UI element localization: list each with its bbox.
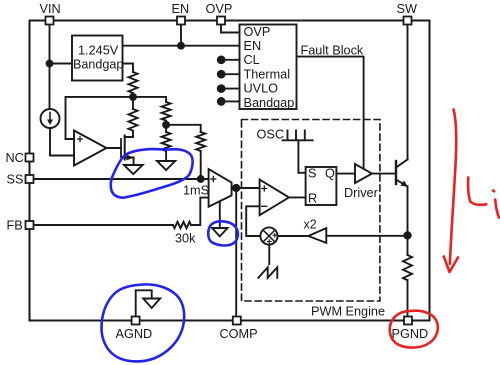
blue annotation loop around ground G3 xyxy=(208,221,238,245)
svg-text:R: R xyxy=(308,192,317,206)
wire EN net xyxy=(123,45,240,47)
node sense tap xyxy=(404,232,410,238)
multiplier X1 xyxy=(260,227,277,244)
current source I1 xyxy=(41,109,60,128)
resistor R2 xyxy=(129,109,138,131)
pin COMP xyxy=(233,317,241,325)
svg-text:1.245V: 1.245V xyxy=(78,44,119,58)
ground G3 xyxy=(212,228,228,236)
AGND ground symbol xyxy=(136,290,152,316)
bandgap block xyxy=(72,36,123,81)
resistor R7 30k xyxy=(34,224,174,226)
wire sawtooth stem xyxy=(268,245,270,264)
node VIN-bandgap junction xyxy=(47,61,53,67)
node J2 xyxy=(163,122,169,128)
svg-text:EN: EN xyxy=(172,2,190,16)
ground G2 xyxy=(157,161,175,170)
ground G1 xyxy=(124,165,143,174)
svg-text:EN: EN xyxy=(244,39,262,53)
node Bandgap stub xyxy=(218,98,225,105)
svg-text:PGND: PGND xyxy=(392,327,429,341)
blue annotation loop around AGND xyxy=(102,284,185,361)
node CL stub xyxy=(218,56,225,63)
sawtooth ramp symbol xyxy=(258,267,277,278)
svg-text:Driver: Driver xyxy=(344,186,379,200)
pin PGND xyxy=(404,317,412,325)
wire J2 down xyxy=(165,125,167,132)
pin SS xyxy=(26,175,34,183)
svg-text:30k: 30k xyxy=(175,232,196,246)
svg-text:OSC: OSC xyxy=(257,128,285,142)
pin OVP xyxy=(217,17,225,25)
wire multiplier to x2 xyxy=(278,235,309,237)
wire feedback to op-amp plus input xyxy=(66,97,134,139)
wire x2 to sense node xyxy=(326,235,407,237)
svg-text:Bandgap: Bandgap xyxy=(244,96,295,110)
comparator U4 xyxy=(260,180,289,216)
svg-text:FB: FB xyxy=(7,219,23,233)
wire current source to op-amp minus input xyxy=(50,128,74,156)
node EN junction xyxy=(178,43,184,49)
pin VIN xyxy=(46,17,54,25)
svg-text:COMP: COMP xyxy=(220,327,258,341)
pin NC xyxy=(26,154,34,162)
svg-text:AGND: AGND xyxy=(116,327,153,341)
wire emitter down xyxy=(407,187,409,256)
wire comparator output to R input xyxy=(289,196,306,198)
wire OVP elbow xyxy=(221,25,240,33)
svg-text:Thermal: Thermal xyxy=(244,67,291,81)
resistor R5 xyxy=(162,132,171,151)
wire SS line xyxy=(34,178,209,180)
red Li annotation xyxy=(468,178,486,205)
svg-text:Q: Q xyxy=(325,167,335,181)
wire R4 to SS node xyxy=(200,151,202,179)
PWM engine dashed box xyxy=(242,120,380,302)
resistor R3 xyxy=(162,102,171,121)
wire R6 to PGND xyxy=(407,280,409,317)
wire J1 to chain2 xyxy=(133,97,166,102)
svg-text:CL: CL xyxy=(244,53,260,67)
wire SW drop to collector xyxy=(407,25,409,160)
pin EN xyxy=(177,17,185,25)
red circle around PGND pin xyxy=(390,311,438,348)
wire EN pin drop xyxy=(180,25,182,46)
wire OSC to S input xyxy=(298,140,305,173)
transistor M1 NMOS xyxy=(120,139,122,157)
node U2 output xyxy=(233,185,239,191)
SR latch U5 xyxy=(306,167,337,205)
wire fault output to driver xyxy=(297,57,364,169)
svg-text:1mS: 1mS xyxy=(183,184,209,198)
svg-text:NC: NC xyxy=(6,151,24,165)
node J3 on SS line xyxy=(198,176,204,182)
IC boundary xyxy=(30,21,430,321)
svg-text:PWM Engine: PWM Engine xyxy=(311,305,385,319)
blue annotation loop around grounds G1 G2 xyxy=(111,149,193,198)
wire source down xyxy=(133,158,135,166)
wire R5 to ground xyxy=(165,151,167,161)
op-amp U1 xyxy=(74,131,107,166)
wire U2 output to comparator xyxy=(232,187,260,189)
svg-text:S: S xyxy=(308,167,316,181)
node J1 ref node xyxy=(130,94,136,100)
resistor R4 xyxy=(196,132,205,151)
pin SW xyxy=(404,17,412,25)
pin FB xyxy=(26,221,34,229)
red arrow annotation xyxy=(450,110,456,265)
wire COMP drop xyxy=(235,188,237,317)
OSC clock symbol xyxy=(283,131,313,141)
wire comparator minus elbow xyxy=(246,206,260,236)
svg-text:x2: x2 xyxy=(304,218,317,232)
wire bandgap input xyxy=(50,63,73,65)
fault block U3 xyxy=(240,25,297,110)
svg-text:SW: SW xyxy=(397,2,417,16)
transistor Q1 xyxy=(395,161,397,184)
driver buffer A2 xyxy=(355,164,372,183)
wire U2 ground stem xyxy=(219,201,221,228)
svg-text:OVP: OVP xyxy=(206,2,233,16)
x2 buffer A1 xyxy=(308,228,326,243)
wire 30k to amp lower input xyxy=(191,198,209,225)
wire R2 to MOSFET drain xyxy=(125,131,133,137)
pin AGND xyxy=(132,317,140,325)
node Thermal stub xyxy=(218,71,225,78)
svg-text:UVLO: UVLO xyxy=(244,82,279,96)
wire J1 down xyxy=(132,97,134,109)
svg-text:VIN: VIN xyxy=(40,2,61,16)
node UVLO stub xyxy=(218,85,225,92)
svg-text:Fault Block: Fault Block xyxy=(301,44,364,58)
svg-text:Bandgap: Bandgap xyxy=(73,58,123,72)
wire Q output to driver xyxy=(336,173,355,175)
wire op-amp output to gate xyxy=(107,147,122,149)
wire bandgap output elbow xyxy=(123,64,134,73)
svg-text:SS: SS xyxy=(7,173,24,187)
resistor R6 sense xyxy=(403,255,412,280)
resistor R1 xyxy=(129,72,138,93)
wire VIN drop xyxy=(49,25,51,110)
op-amp U2 1mS gm amp xyxy=(209,169,232,207)
wire J2 right to R4 xyxy=(166,125,201,132)
svg-text:OVP: OVP xyxy=(244,25,271,39)
